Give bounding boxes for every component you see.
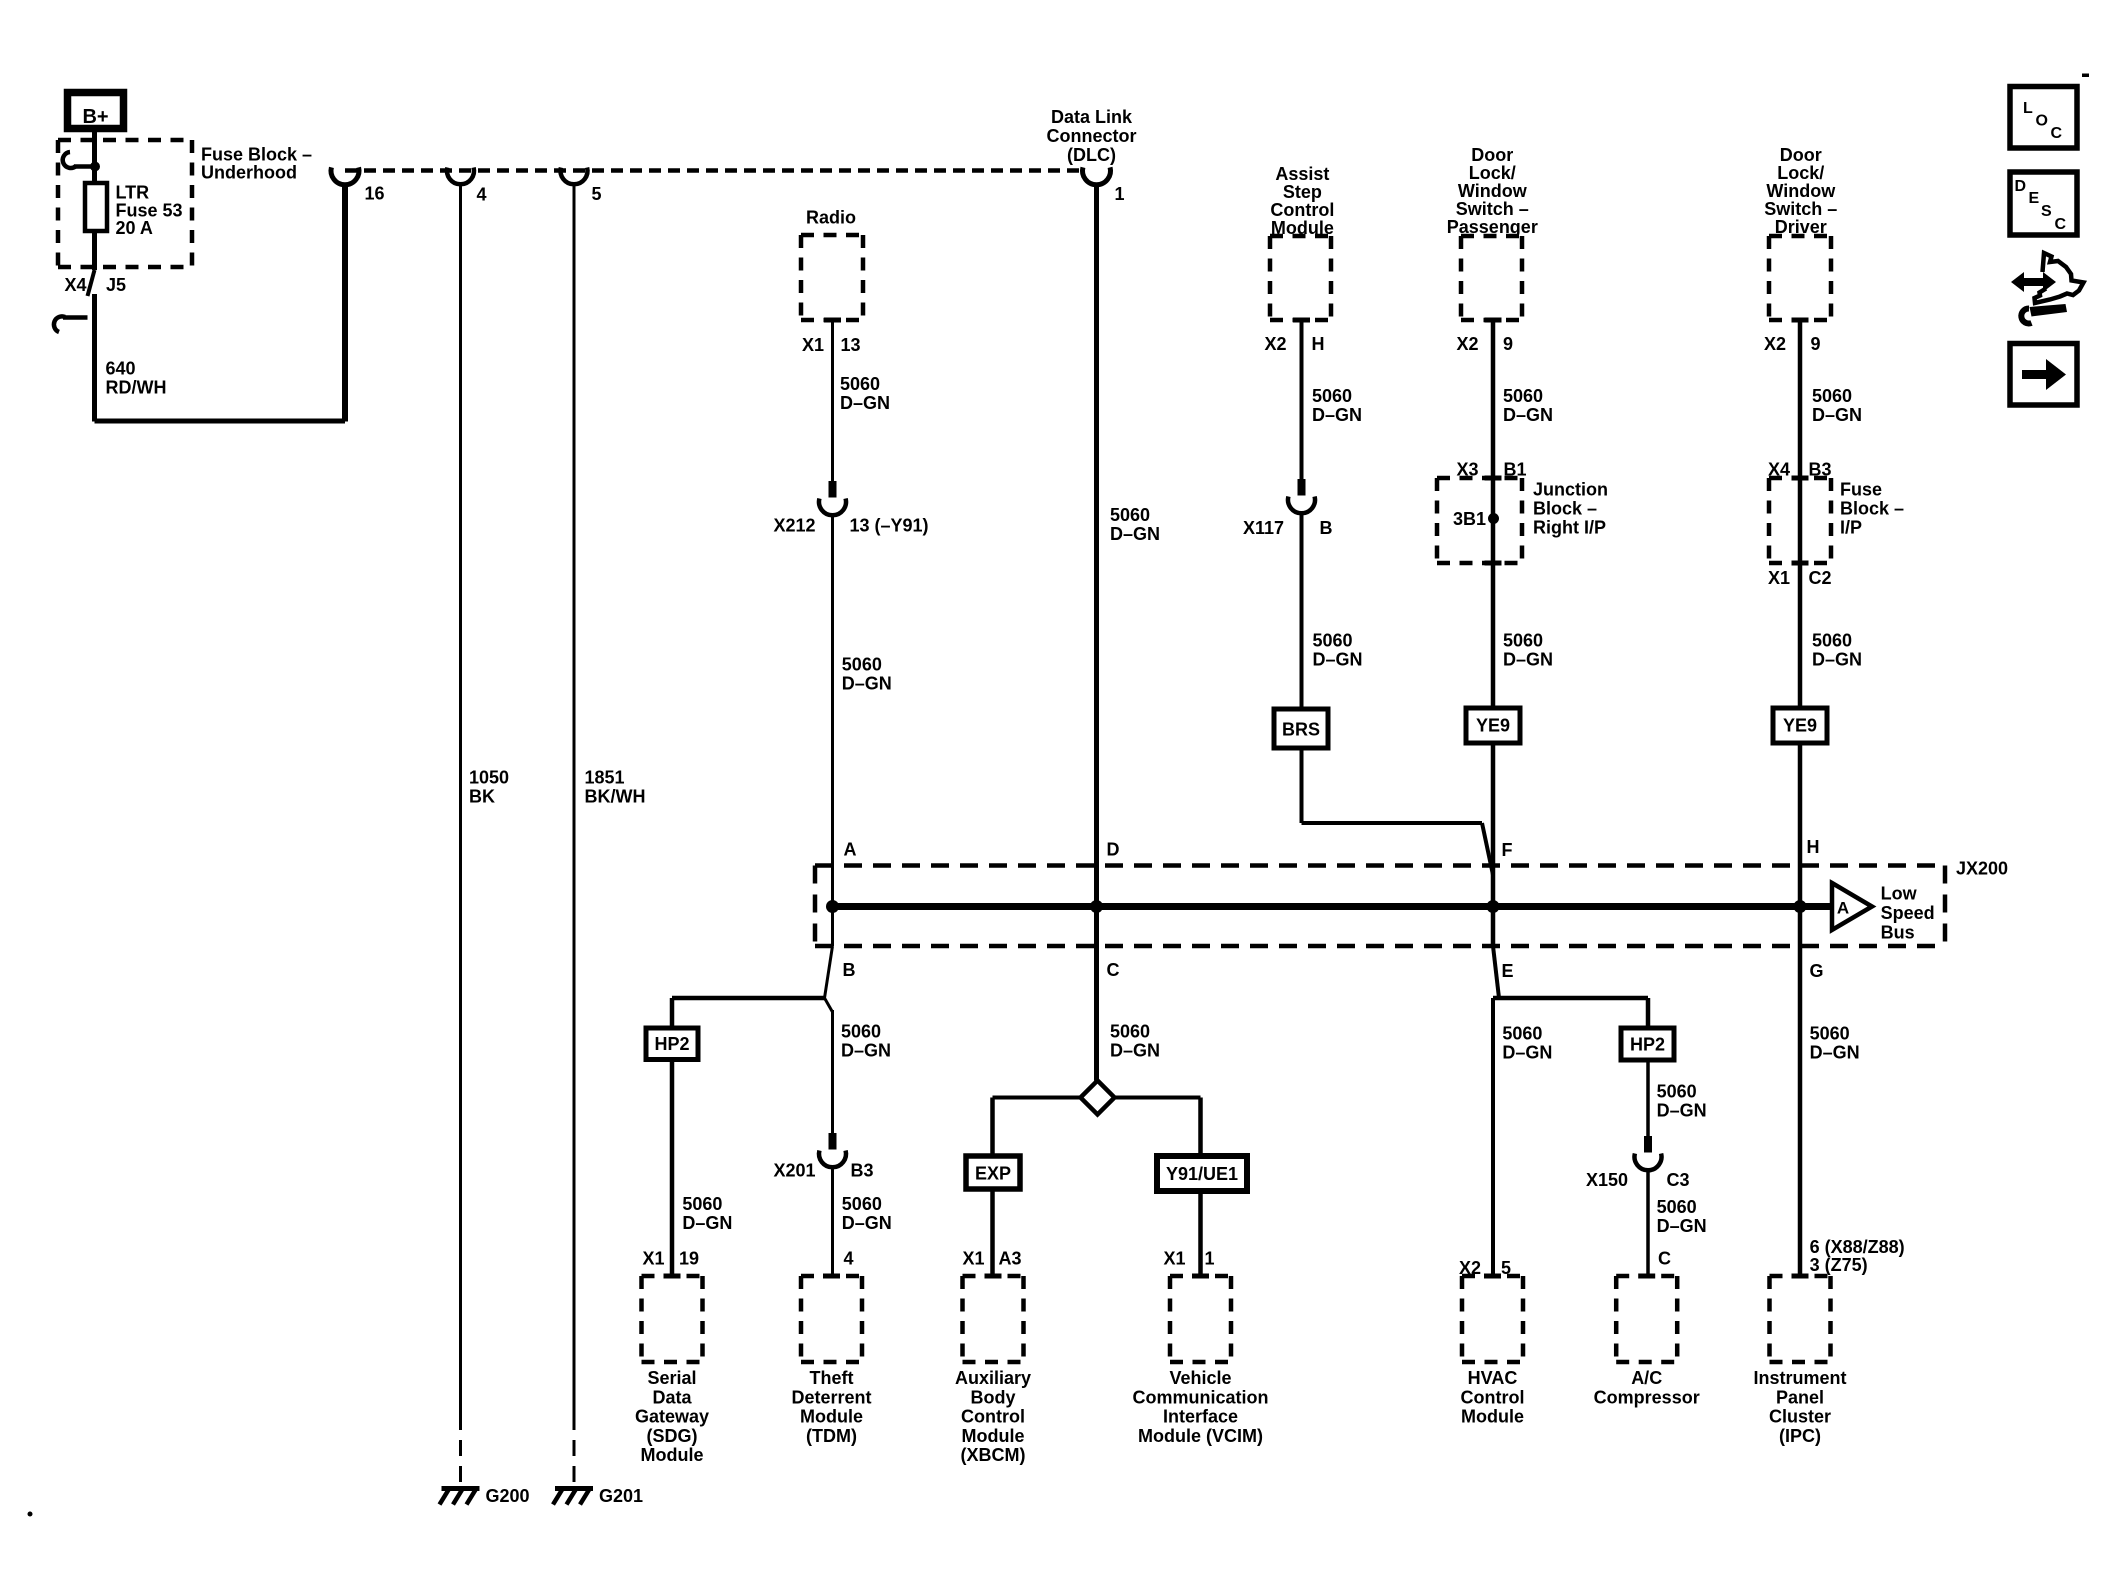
svg-text:16: 16 xyxy=(365,184,385,204)
svg-text:HP2: HP2 xyxy=(1630,1035,1665,1055)
svg-text:D–GN: D–GN xyxy=(1110,524,1160,544)
svg-text:Module: Module xyxy=(800,1407,863,1427)
svg-text:Theft: Theft xyxy=(810,1368,854,1388)
svg-text:HVAC: HVAC xyxy=(1468,1368,1518,1388)
svg-text:Control: Control xyxy=(961,1407,1025,1427)
svg-text:X2: X2 xyxy=(1264,334,1286,354)
svg-text:L: L xyxy=(2023,100,2033,117)
svg-text:Deterrent: Deterrent xyxy=(791,1387,871,1407)
svg-text:X2: X2 xyxy=(1764,334,1786,354)
svg-text:X4: X4 xyxy=(64,275,86,295)
svg-text:Data Link: Data Link xyxy=(1051,107,1133,127)
svg-text:D: D xyxy=(1107,840,1120,860)
svg-text:Bus: Bus xyxy=(1881,923,1915,943)
svg-text:B+: B+ xyxy=(82,106,108,128)
svg-text:Right I/P: Right I/P xyxy=(1533,518,1606,538)
svg-text:J5: J5 xyxy=(106,275,126,295)
svg-text:C: C xyxy=(1658,1249,1671,1269)
svg-text:Serial: Serial xyxy=(647,1368,696,1388)
svg-text:C: C xyxy=(1107,960,1120,980)
svg-text:EXP: EXP xyxy=(975,1164,1011,1184)
svg-text:D–GN: D–GN xyxy=(1810,1043,1860,1063)
svg-text:F: F xyxy=(1502,840,1513,860)
svg-text:Connector: Connector xyxy=(1047,126,1137,146)
svg-text:9: 9 xyxy=(1503,334,1513,354)
svg-text:Compressor: Compressor xyxy=(1594,1387,1700,1407)
svg-text:X1: X1 xyxy=(802,335,824,355)
svg-text:1851: 1851 xyxy=(585,768,625,788)
svg-text:Control: Control xyxy=(1461,1387,1525,1407)
svg-text:5060: 5060 xyxy=(1312,386,1352,406)
svg-text:D–GN: D–GN xyxy=(1657,1216,1707,1236)
svg-text:5060: 5060 xyxy=(1110,1022,1150,1042)
svg-text:Auxiliary: Auxiliary xyxy=(955,1368,1031,1388)
svg-text:Communication: Communication xyxy=(1132,1387,1268,1407)
svg-text:(SDG): (SDG) xyxy=(647,1426,698,1446)
svg-text:9: 9 xyxy=(1811,334,1821,354)
svg-text:X212: X212 xyxy=(773,516,815,536)
svg-text:C: C xyxy=(2051,125,2063,142)
svg-text:Door: Door xyxy=(1780,145,1822,165)
svg-text:5060: 5060 xyxy=(840,374,880,394)
svg-text:Lock/: Lock/ xyxy=(1469,163,1516,183)
svg-text:(IPC): (IPC) xyxy=(1779,1426,1821,1446)
svg-text:1050: 1050 xyxy=(469,768,509,788)
svg-text:5060: 5060 xyxy=(1657,1082,1697,1102)
svg-text:Interface: Interface xyxy=(1163,1407,1238,1427)
svg-text:(XBCM): (XBCM) xyxy=(961,1445,1026,1465)
svg-text:D–GN: D–GN xyxy=(1110,1041,1160,1061)
svg-text:Door: Door xyxy=(1471,145,1513,165)
svg-text:X1: X1 xyxy=(1768,568,1790,588)
svg-text:G201: G201 xyxy=(599,1486,643,1506)
svg-text:Assist: Assist xyxy=(1275,164,1329,184)
svg-text:O: O xyxy=(2036,113,2048,130)
svg-text:Control: Control xyxy=(1270,200,1334,220)
svg-text:B3: B3 xyxy=(851,1161,874,1181)
svg-text:A/C: A/C xyxy=(1631,1368,1662,1388)
svg-text:Block –: Block – xyxy=(1533,499,1597,519)
svg-text:5060: 5060 xyxy=(1810,1024,1850,1044)
svg-text:D–GN: D–GN xyxy=(682,1213,732,1233)
svg-text:5060: 5060 xyxy=(1313,631,1353,651)
svg-text:YE9: YE9 xyxy=(1476,716,1510,736)
svg-text:1: 1 xyxy=(1115,184,1125,204)
svg-text:5060: 5060 xyxy=(1503,386,1543,406)
svg-text:D: D xyxy=(2015,178,2027,195)
svg-text:Y91/UE1: Y91/UE1 xyxy=(1166,1164,1238,1184)
svg-text:(DLC): (DLC) xyxy=(1067,145,1116,165)
svg-text:4: 4 xyxy=(477,185,487,205)
svg-text:Step: Step xyxy=(1283,182,1322,202)
svg-text:Low: Low xyxy=(1881,884,1918,904)
svg-text:Underhood: Underhood xyxy=(201,163,297,183)
svg-text:5060: 5060 xyxy=(1110,505,1150,525)
svg-text:G: G xyxy=(1810,961,1824,981)
svg-text:3 (Z75): 3 (Z75) xyxy=(1810,1255,1868,1275)
svg-text:20 A: 20 A xyxy=(116,218,153,238)
svg-text:A3: A3 xyxy=(999,1249,1022,1269)
svg-text:D–GN: D–GN xyxy=(842,1213,892,1233)
svg-text:YE9: YE9 xyxy=(1783,716,1817,736)
svg-text:4: 4 xyxy=(844,1249,854,1269)
svg-text:D–GN: D–GN xyxy=(842,674,892,694)
svg-text:Cluster: Cluster xyxy=(1769,1407,1831,1427)
svg-text:X1: X1 xyxy=(1163,1249,1185,1269)
svg-text:Module (VCIM): Module (VCIM) xyxy=(1138,1426,1263,1446)
svg-text:Switch –: Switch – xyxy=(1456,199,1529,219)
svg-text:H: H xyxy=(1807,837,1820,857)
svg-text:Instrument: Instrument xyxy=(1753,1368,1846,1388)
svg-text:A: A xyxy=(1837,899,1849,918)
svg-text:Module: Module xyxy=(1461,1407,1524,1427)
svg-text:D–GN: D–GN xyxy=(1812,650,1862,670)
svg-text:D–GN: D–GN xyxy=(1312,405,1362,425)
svg-text:Fuse: Fuse xyxy=(1840,480,1882,500)
svg-text:5060: 5060 xyxy=(1657,1197,1697,1217)
svg-text:Lock/: Lock/ xyxy=(1777,163,1824,183)
svg-text:6 (X88/Z88): 6 (X88/Z88) xyxy=(1810,1237,1905,1257)
svg-text:X1: X1 xyxy=(962,1249,984,1269)
svg-text:G200: G200 xyxy=(486,1486,530,1506)
svg-text:Body: Body xyxy=(971,1387,1016,1407)
svg-text:D–GN: D–GN xyxy=(1503,405,1553,425)
svg-text:Module: Module xyxy=(962,1426,1025,1446)
svg-text:Junction: Junction xyxy=(1533,480,1608,500)
svg-text:13: 13 xyxy=(841,335,861,355)
svg-text:E: E xyxy=(2029,190,2040,207)
svg-text:5: 5 xyxy=(592,184,602,204)
svg-text:D–GN: D–GN xyxy=(1313,650,1363,670)
svg-text:3B1: 3B1 xyxy=(1453,509,1486,529)
svg-text:A: A xyxy=(844,840,857,860)
svg-text:X1: X1 xyxy=(642,1249,664,1269)
svg-text:5060: 5060 xyxy=(841,1022,881,1042)
svg-text:5060: 5060 xyxy=(1812,386,1852,406)
svg-text:19: 19 xyxy=(679,1249,699,1269)
svg-text:1: 1 xyxy=(1205,1249,1215,1269)
svg-text:640: 640 xyxy=(106,359,136,379)
svg-text:RD/WH: RD/WH xyxy=(106,378,167,398)
svg-text:5060: 5060 xyxy=(1812,631,1852,651)
svg-text:5060: 5060 xyxy=(1503,631,1543,651)
svg-text:JX200: JX200 xyxy=(1956,859,2008,879)
svg-text:I/P: I/P xyxy=(1840,518,1862,538)
svg-text:Vehicle: Vehicle xyxy=(1169,1368,1231,1388)
svg-text:Panel: Panel xyxy=(1776,1387,1824,1407)
svg-text:Gateway: Gateway xyxy=(635,1407,709,1427)
svg-text:Data: Data xyxy=(652,1387,692,1407)
svg-text:Module: Module xyxy=(641,1445,704,1465)
svg-text:X2: X2 xyxy=(1456,334,1478,354)
svg-text:E: E xyxy=(1502,961,1514,981)
svg-text:D–GN: D–GN xyxy=(1503,650,1553,670)
svg-text:C3: C3 xyxy=(1667,1170,1690,1190)
svg-text:H: H xyxy=(1312,334,1325,354)
svg-text:Speed: Speed xyxy=(1881,903,1935,923)
svg-text:X150: X150 xyxy=(1586,1170,1628,1190)
svg-text:Window: Window xyxy=(1458,181,1528,201)
svg-text:B: B xyxy=(1320,518,1333,538)
svg-text:BK/WH: BK/WH xyxy=(585,787,646,807)
svg-text:S: S xyxy=(2041,203,2052,220)
svg-text:C2: C2 xyxy=(1809,568,1832,588)
svg-text:D–GN: D–GN xyxy=(1502,1043,1552,1063)
svg-text:5060: 5060 xyxy=(842,655,882,675)
svg-text:5060: 5060 xyxy=(1502,1024,1542,1044)
svg-text:5060: 5060 xyxy=(682,1194,722,1214)
svg-text:HP2: HP2 xyxy=(654,1034,689,1054)
svg-text:C: C xyxy=(2055,216,2067,233)
svg-text:Radio: Radio xyxy=(806,208,856,228)
svg-text:Block –: Block – xyxy=(1840,499,1904,519)
svg-text:X201: X201 xyxy=(773,1161,815,1181)
svg-text:B: B xyxy=(843,960,856,980)
svg-text:D–GN: D–GN xyxy=(841,1041,891,1061)
svg-text:BK: BK xyxy=(469,787,495,807)
svg-text:D–GN: D–GN xyxy=(840,393,890,413)
svg-text:X117: X117 xyxy=(1243,518,1284,538)
svg-text:(TDM): (TDM) xyxy=(806,1426,857,1446)
svg-text:BRS: BRS xyxy=(1282,720,1320,740)
svg-text:D–GN: D–GN xyxy=(1812,405,1862,425)
svg-text:5060: 5060 xyxy=(842,1194,882,1214)
svg-text:D–GN: D–GN xyxy=(1657,1101,1707,1121)
svg-text:13 (–Y91): 13 (–Y91) xyxy=(850,516,929,536)
svg-text:Switch –: Switch – xyxy=(1764,199,1837,219)
svg-text:Window: Window xyxy=(1766,181,1836,201)
